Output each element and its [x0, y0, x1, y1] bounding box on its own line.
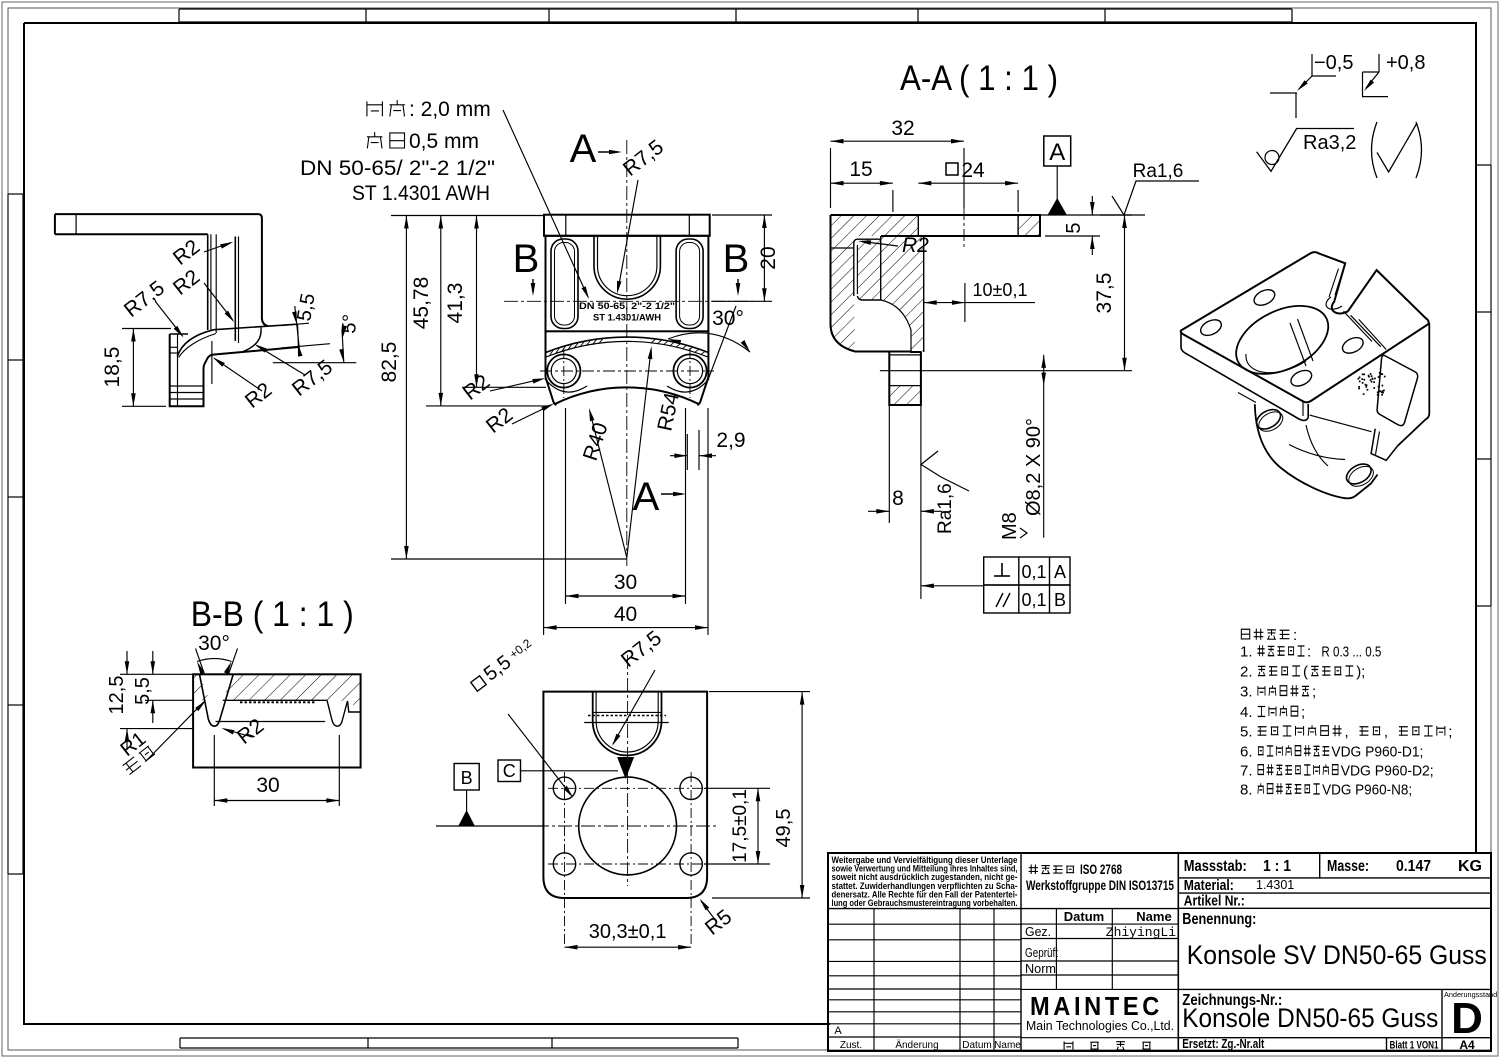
svg-text:Konsole DN50-65 Guss: Konsole DN50-65 Guss: [1182, 1003, 1438, 1033]
label square 5,5 +0,2: [467, 634, 573, 797]
note: raised 0,5mm (CJK): [367, 130, 479, 153]
svg-text:45,78: 45,78: [410, 277, 433, 330]
section mark B right: [723, 237, 750, 296]
svg-text:A4: A4: [1459, 1038, 1475, 1052]
label R7,5 front: [617, 136, 668, 294]
svg-text:Zust.: Zust.: [840, 1040, 862, 1051]
svg-text:lung oder Gebrauchsmustereintr: lung oder Gebrauchsmustereintragung vorb…: [832, 898, 1018, 908]
feature control frame perpendicular: [984, 557, 1070, 613]
svg-text:Artikel Nr.:: Artikel Nr.:: [1184, 893, 1245, 910]
surface symbol Ra1,6 on lug: [921, 451, 969, 534]
side view: top arm outline: [55, 214, 299, 406]
svg-text:Ø8,2 X 90°: Ø8,2 X 90°: [1023, 418, 1045, 516]
label R2 B-B: [221, 714, 268, 749]
side view: lug block inner lines: [170, 334, 204, 406]
side view: R7.5 fillet lower right: [243, 327, 261, 352]
right fold marks: [1476, 165, 1491, 606]
svg-text:,: ,: [1384, 724, 1388, 741]
section mark B left: [513, 237, 540, 296]
svg-text:15: 15: [849, 158, 872, 181]
front view: flange end edges: [546, 331, 709, 405]
svg-text:1 : 1: 1 : 1: [1263, 858, 1291, 875]
B-B: V notch: [196, 648, 238, 726]
svg-text:Ra3,2: Ra3,2: [1303, 132, 1356, 154]
technical requirements title: [1241, 627, 1297, 644]
Ersetzt row: [1182, 1036, 1475, 1052]
dimension 2,9: [670, 429, 746, 470]
front view: cast text DN 50-65: [579, 301, 675, 324]
svg-text:5°: 5°: [338, 313, 362, 334]
svg-text:R 0.3 ... 0.5: R 0.3 ... 0.5: [1321, 644, 1381, 661]
bottom view: serration band: [584, 712, 669, 722]
tech requirement 2: [1240, 664, 1365, 681]
row Gez: [1025, 924, 1176, 940]
A-A: centerline pocket: [963, 208, 965, 250]
svg-text:82,5: 82,5: [378, 342, 401, 383]
front view: top plate: [544, 215, 710, 236]
svg-text:32: 32: [891, 117, 914, 140]
front view: main block: [546, 236, 709, 331]
note: text height 2,0mm (CJK): [367, 98, 491, 121]
top fold marks: [179, 9, 1292, 22]
side view: arm bottom and left cap: [55, 214, 208, 234]
svg-text:0.147: 0.147: [1396, 858, 1431, 875]
label R1 all around (CJK): [117, 700, 206, 774]
isometric: under-plate edge: [1238, 393, 1372, 432]
tech requirement 8: [1240, 782, 1412, 799]
svg-text:,: ,: [1345, 724, 1349, 741]
svg-text:M8: M8: [999, 512, 1021, 540]
svg-text:A: A: [1054, 562, 1066, 582]
dimension 20 right: [712, 215, 780, 301]
tech requirement 5: [1240, 724, 1452, 741]
row Geprueft: [1025, 945, 1058, 960]
A-A: lug hole void lines: [889, 355, 921, 386]
section title B-B: [191, 595, 354, 634]
dimension 40 front: [544, 408, 708, 635]
svg-text:Datum: Datum: [962, 1040, 991, 1051]
note: ST 1.4301 AWH line: [352, 182, 490, 205]
30 deg angle front: [668, 306, 750, 393]
dimension 15: [831, 158, 893, 212]
side view: S-curve fillet wall to flange: [177, 330, 216, 358]
svg-text:8: 8: [892, 487, 904, 510]
dimension 45,78: [410, 216, 549, 406]
svg-text:(: (: [1303, 664, 1308, 681]
A-A: lug extension lines + dim 8: [868, 405, 942, 599]
front view: left slot: [551, 239, 578, 329]
label R2 first: [169, 235, 233, 270]
front view: U channel: [594, 236, 660, 299]
svg-text:17,5±0,1: 17,5±0,1: [730, 789, 751, 863]
tech requirement 4: [1240, 704, 1305, 721]
A-A: inner wall right face: [881, 236, 924, 352]
label R2 front upper: [459, 370, 546, 405]
svg-text:Geprüft: Geprüft: [1025, 945, 1058, 960]
Benennung: [1182, 911, 1487, 970]
section mark A bottom: [633, 475, 686, 519]
svg-text:+0,8: +0,8: [1386, 52, 1425, 74]
dimension 5,5 B-B: [132, 651, 223, 723]
left fold marks: [8, 194, 23, 874]
svg-text:Main Technologies Co.,Ltd.: Main Technologies Co.,Ltd.: [1026, 1018, 1174, 1033]
row Norm: [1025, 961, 1056, 976]
svg-text:2.: 2.: [1240, 664, 1253, 681]
svg-text:0,5 mm: 0,5 mm: [409, 130, 479, 153]
Artikel row: [1184, 893, 1245, 910]
countersink dim M8: [1023, 355, 1046, 538]
front view: centerlines: [504, 140, 753, 566]
note: DN 50-65 line: [300, 157, 495, 180]
svg-text:30: 30: [614, 571, 637, 594]
dimension 41,3: [444, 216, 546, 388]
svg-text:);: );: [1356, 664, 1365, 681]
svg-text:;: ;: [1448, 724, 1452, 741]
datum flag C: [498, 757, 634, 782]
front view: flange band arcs: [546, 337, 709, 404]
Zeichnungs-Nr: [1182, 992, 1438, 1033]
label R40: [579, 408, 627, 558]
svg-text:A-A ( 1 : 1 ): A-A ( 1 : 1 ): [900, 59, 1058, 98]
svg-text:VDG P960-N8;: VDG P960-N8;: [1322, 782, 1412, 799]
svg-text:0,1: 0,1: [1021, 590, 1046, 610]
A-A: outline: [831, 215, 1041, 405]
svg-text:−0,5: −0,5: [1314, 52, 1353, 74]
label R7,5 upper left: [120, 277, 184, 338]
isometric: speckle patch: [1358, 372, 1386, 396]
isometric: channel slant edges: [1344, 311, 1387, 349]
svg-text:D: D: [1451, 994, 1483, 1043]
parenthesized checkmark: [1372, 122, 1422, 178]
dimension 10 +-0,1: [924, 280, 1035, 322]
svg-text:10±0,1: 10±0,1: [973, 280, 1028, 300]
svg-text:Ra1,6: Ra1,6: [1133, 161, 1184, 182]
svg-text:24: 24: [961, 159, 985, 182]
edge symbol -0,5: [1270, 52, 1353, 118]
dimension 18,5: [101, 329, 171, 407]
tech requirement 7: [1240, 763, 1434, 780]
tech requirement 3: [1240, 684, 1316, 701]
dimension 5: [1045, 196, 1100, 255]
svg-text:C: C: [503, 761, 516, 781]
svg-text:Benennung:: Benennung:: [1182, 911, 1256, 928]
A-A: R2 label: [858, 234, 929, 257]
svg-text:Name: Name: [1136, 909, 1171, 924]
dimension 30 front: [566, 408, 686, 604]
svg-text:3.: 3.: [1240, 684, 1253, 701]
B-B: hatched band: [193, 674, 361, 710]
svg-text:Ra1,6: Ra1,6: [935, 483, 956, 534]
svg-text:KG: KG: [1458, 858, 1482, 875]
dimension 12,5 B-B: [106, 651, 193, 750]
svg-text:0,1: 0,1: [1021, 562, 1046, 582]
Massstab row: [1184, 858, 1482, 875]
svg-text:B: B: [1054, 590, 1066, 610]
tech requirement 6: [1240, 744, 1423, 761]
isometric: lug holes: [1253, 406, 1377, 491]
svg-text:DN 50-65/ 2"-2 1/2": DN 50-65/ 2"-2 1/2": [300, 157, 495, 180]
svg-text:1.: 1.: [1240, 644, 1253, 661]
svg-text:A: A: [834, 1025, 842, 1037]
dimension 5 deg: [273, 313, 362, 362]
revision row labels: [834, 1025, 1021, 1051]
surface symbol Ra1,6 top right: [1112, 161, 1199, 215]
FCF leader: [921, 584, 984, 589]
side view: flange upper slant edge: [214, 324, 299, 347]
front view: left hole: [547, 354, 580, 387]
dimension 49,5: [709, 692, 810, 898]
svg-text:5.: 5.: [1240, 724, 1253, 741]
svg-text:Massstab:: Massstab:: [1184, 858, 1247, 875]
title block grid: [828, 853, 1491, 1051]
svg-text:41,3: 41,3: [444, 283, 467, 324]
dimension 17,5 +-0,1: [704, 788, 770, 864]
svg-text:Masse:: Masse:: [1327, 858, 1369, 875]
svg-text:VDG P960-D2;: VDG P960-D2;: [1341, 763, 1434, 780]
dimension 5,5 slanted: [281, 292, 330, 357]
bottom view: big circle: [579, 777, 677, 875]
svg-text:VDG P960-D1;: VDG P960-D1;: [1331, 744, 1423, 761]
svg-text:ISO 2768: ISO 2768: [1080, 862, 1122, 877]
svg-text:B-B ( 1 : 1 ): B-B ( 1 : 1 ): [191, 595, 354, 634]
side view: lug hole axis tick: [211, 341, 213, 384]
svg-text::: :: [1307, 644, 1311, 661]
side view: channel wall verticals: [208, 234, 239, 343]
svg-text:8.: 8.: [1240, 782, 1253, 799]
svg-text:Norm: Norm: [1025, 961, 1056, 976]
isometric: foot: [1371, 429, 1397, 461]
surface symbol Ra3,2: [1257, 129, 1357, 172]
svg-text:4.: 4.: [1240, 704, 1253, 721]
svg-text:Gez.: Gez.: [1025, 924, 1051, 939]
svg-text:A: A: [1049, 139, 1065, 166]
front view: left lug boss arc: [545, 379, 587, 392]
M8 text: [999, 512, 1027, 540]
label R2 third: [213, 357, 276, 413]
Aenderungsstand cell: [1444, 990, 1497, 1043]
svg-text:30,3±0,1: 30,3±0,1: [589, 921, 667, 943]
svg-text:12,5: 12,5: [106, 676, 128, 715]
isometric: plate thickness edges: [1181, 333, 1308, 420]
svg-text:Material:: Material:: [1184, 877, 1234, 894]
section mark A top: [570, 127, 622, 171]
svg-text:37,5: 37,5: [1093, 273, 1116, 314]
MAINTEC logo: [1026, 991, 1174, 1033]
sheets CJK row: [1064, 1041, 1151, 1050]
svg-text:30: 30: [256, 774, 279, 797]
svg-text:B: B: [461, 768, 473, 788]
ISO tolerance cell: [1026, 862, 1174, 893]
front view: right lug boss arc: [667, 379, 709, 392]
A-A: hatching foot: [889, 386, 921, 405]
front view: chamfer shading between band arcs: [549, 339, 705, 356]
svg-text:Blatt 1 VON1: Blatt 1 VON1: [1390, 1040, 1439, 1052]
svg-text:18,5: 18,5: [101, 347, 124, 388]
bottom view: plate outline: [543, 692, 707, 898]
front view: right hole: [673, 354, 706, 387]
A-A: pocket edge verticals in plate: [918, 215, 1018, 236]
datum flag B: [436, 764, 543, 827]
B-B: outline: [193, 674, 361, 767]
tech requirement 1: [1240, 644, 1381, 661]
isometric: notch inner lines: [1326, 269, 1343, 310]
svg-text:;: ;: [1312, 684, 1316, 701]
dimension 32: [831, 117, 965, 208]
dimension 30 B-B: [214, 735, 339, 806]
edge symbol +0,8: [1362, 52, 1425, 97]
note leader line: [503, 110, 589, 299]
step ext line left: [145, 699, 193, 701]
svg-text:ST 1.4301 AWH: ST 1.4301 AWH: [352, 182, 490, 205]
isometric: big bore: [1225, 292, 1339, 388]
A-A: hatching wall: [831, 236, 924, 352]
front view: right slot: [676, 239, 703, 329]
label R2 front lower: [482, 403, 554, 438]
svg-text:;: ;: [1301, 704, 1305, 721]
A-A top surface ext to Ra: [1040, 214, 1145, 216]
isometric: top plate: [1181, 252, 1429, 402]
Material row: [1184, 877, 1294, 894]
bottom view: U cutout: [593, 692, 662, 756]
svg-text:A: A: [633, 475, 660, 519]
svg-text:20: 20: [757, 246, 780, 269]
label R2 second: [169, 265, 234, 322]
B-B: right notch: [327, 700, 361, 726]
svg-text:MAINTEC: MAINTEC: [1030, 991, 1163, 1021]
section title A-A: [900, 59, 1058, 98]
svg-text:Name: Name: [994, 1040, 1021, 1051]
B-B: step line and serration: [216, 700, 328, 721]
svg-text:40: 40: [614, 603, 637, 626]
svg-text:6.: 6.: [1240, 744, 1253, 761]
bottom view: centerlines: [535, 655, 717, 947]
label R7,5 lower: [255, 344, 338, 401]
isometric: small holes: [1252, 287, 1278, 309]
dimension 82,5: [378, 216, 627, 560]
A-A: pocket: [854, 236, 881, 300]
label R5: [700, 899, 737, 940]
svg-text:: 2,0 mm: : 2,0 mm: [409, 98, 491, 121]
label R54: [627, 346, 684, 558]
label R7,5 bottom: [612, 627, 666, 746]
title block outer: [828, 853, 1491, 1051]
svg-text:Werkstoffgruppe DIN ISO13715: Werkstoffgruppe DIN ISO13715: [1026, 878, 1174, 893]
svg-text:7.: 7.: [1240, 763, 1253, 780]
svg-text:ZhiyingLi: ZhiyingLi: [1106, 925, 1176, 940]
A-A: counterbore step line: [831, 247, 854, 249]
datum flag A: [1044, 136, 1071, 215]
svg-text:30°: 30°: [198, 632, 230, 655]
svg-text:Ersetzt: Zg.-Nr.alt: Ersetzt: Zg.-Nr.alt: [1182, 1036, 1265, 1051]
svg-text:Konsole SV DN50-65 Guss: Konsole SV DN50-65 Guss: [1187, 940, 1487, 970]
table header Datum/Name: [1064, 909, 1172, 924]
isometric: body silhouette: [1255, 404, 1378, 498]
svg-text:49,5: 49,5: [773, 809, 795, 848]
svg-text:1.4301: 1.4301: [1256, 878, 1294, 892]
svg-text:2,9: 2,9: [716, 429, 745, 452]
svg-text:A: A: [570, 127, 597, 171]
dimension 37,5: [880, 215, 1132, 371]
svg-text:B: B: [513, 237, 540, 281]
bottom view: 4 holes: [553, 777, 575, 799]
bottom fold marks: [180, 1038, 738, 1048]
A-A: hatching right plate: [1018, 215, 1040, 236]
title block legal paragraph: [832, 855, 1018, 908]
svg-text:5: 5: [1063, 222, 1085, 233]
svg-text:Datum: Datum: [1064, 909, 1104, 924]
dimension sq 24: [918, 159, 1018, 212]
dimension 30,3 +-0,1: [565, 921, 692, 950]
A-A: hatching left plate: [831, 215, 919, 236]
svg-text::: :: [1293, 627, 1297, 644]
svg-text:B: B: [723, 237, 750, 281]
B-B: 30 deg angle: [197, 632, 232, 674]
isometric: right wall: [1377, 323, 1429, 446]
svg-text:Änderung: Änderung: [895, 1039, 938, 1051]
